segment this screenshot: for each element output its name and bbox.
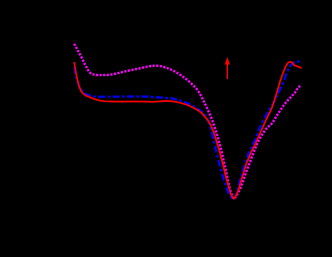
blue dash-dot curve bbox=[74, 62, 302, 200]
red solid curve bbox=[74, 62, 301, 199]
magenta dotted curve bbox=[74, 44, 300, 199]
red arrow shaft bbox=[226, 64, 228, 80]
red arrow head bbox=[225, 57, 230, 65]
